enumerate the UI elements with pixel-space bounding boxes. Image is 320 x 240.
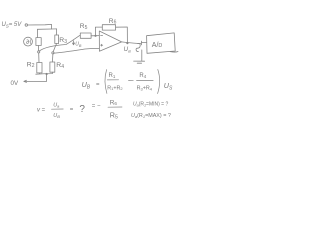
plus input mark — [101, 44, 103, 46]
wire feedback riser — [95, 27, 102, 36]
svg-text:US= 5V: US= 5V — [2, 22, 23, 28]
label Us = 5V — [2, 22, 23, 28]
svg-text:R1: R1 — [109, 73, 116, 79]
resistor R2 — [37, 63, 42, 73]
svg-text:UB: UB — [75, 42, 82, 48]
label Ub — [75, 42, 82, 48]
op-amp U1 — [99, 31, 121, 51]
minus input mark — [101, 34, 103, 36]
svg-text:0V: 0V — [11, 80, 19, 87]
junction feedback tap — [95, 35, 96, 36]
label R3 — [59, 37, 67, 45]
wire R6 to output — [116, 27, 128, 43]
junction bottom — [46, 73, 47, 74]
wire op-amp output — [122, 42, 141, 44]
svg-text:UB: UB — [53, 113, 60, 119]
label Ua — [124, 46, 131, 54]
svg-text:R4: R4 — [56, 62, 64, 70]
svg-text:v =: v = — [37, 107, 46, 113]
wire top bar to R3 — [56, 29, 58, 35]
svg-text:Ua(R1=MIN) = ?: Ua(R1=MIN) = ? — [133, 101, 168, 107]
fraction bars and parens of formula UB — [105, 70, 160, 94]
label R6 — [109, 18, 117, 26]
node B (right bridge tap) — [52, 52, 54, 54]
wire to ground — [141, 50, 143, 61]
wire R5 to op-amp - input — [91, 35, 99, 37]
svg-text:= −: = − — [92, 103, 101, 109]
svg-text:=: = — [70, 107, 74, 113]
label A/D — [152, 42, 163, 49]
note Ua(R1=MAX) — [131, 113, 171, 119]
svg-text:?: ? — [79, 104, 85, 115]
svg-text:US: US — [164, 81, 173, 92]
note Ua(R1=MIN) — [133, 101, 168, 107]
svg-text:R5: R5 — [80, 23, 88, 31]
formula UB — [82, 73, 173, 92]
wire R1 to node A — [38, 46, 40, 51]
fraction bar R6/R5 — [108, 106, 122, 108]
resistor R6 — [102, 25, 115, 30]
svg-text:UB: UB — [82, 80, 91, 91]
wire top bar to R1 — [37, 29, 39, 37]
svg-text:R6: R6 — [109, 18, 117, 26]
connector tick at A/D — [141, 41, 146, 45]
resistor R3 — [55, 35, 59, 44]
connector pigtail — [136, 43, 140, 51]
svg-text:=: = — [96, 82, 100, 88]
label R5 — [80, 23, 88, 31]
junction output node — [127, 42, 128, 43]
resistor R4 — [50, 62, 55, 72]
svg-text:R3+R4: R3+R4 — [137, 86, 153, 92]
wire to 0V — [25, 74, 47, 82]
terminal Us — [25, 24, 27, 26]
wire node A to R2 — [38, 53, 40, 63]
formula -R6/R5 — [110, 99, 118, 120]
wire bridge bottom bar — [36, 72, 53, 74]
sensor circle theta (on R1) — [24, 37, 33, 46]
label 0V — [11, 80, 19, 87]
label R2 — [27, 61, 35, 69]
svg-text:R5: R5 — [110, 110, 118, 120]
svg-text:R4: R4 — [139, 73, 146, 79]
svg-text:Ua: Ua — [53, 102, 60, 108]
svg-text:R2: R2 — [27, 61, 35, 69]
arrow Ub — [73, 41, 75, 45]
svg-text:R1+R2: R1+R2 — [107, 85, 123, 91]
fraction bar v formula — [52, 108, 64, 110]
A/D converter box — [147, 33, 178, 53]
svg-text:A/D: A/D — [152, 42, 163, 49]
wire node B to op-amp + input (lower signal) — [54, 48, 100, 53]
svg-text:R6: R6 — [110, 99, 118, 106]
node A (left bridge tap) — [38, 51, 40, 53]
svg-text:R3: R3 — [59, 37, 67, 45]
wire bridge top bar — [38, 28, 57, 30]
wire R3 to node B — [53, 44, 56, 52]
ground — [134, 61, 145, 63]
arrowhead 0V — [24, 80, 27, 82]
wire node A to R5 (upper signal) — [39, 35, 80, 51]
resistor R5 — [80, 33, 91, 38]
label R4 — [56, 62, 64, 70]
wire node B to R4 — [51, 54, 54, 62]
wire Us to bridge top — [28, 24, 52, 29]
svg-text:Ua: Ua — [124, 46, 131, 54]
formula v = Ua/UB = ? — [37, 102, 101, 119]
resistor R1 — [36, 38, 41, 46]
svg-text:Ua(R1=MAX) = ?: Ua(R1=MAX) = ? — [131, 113, 171, 119]
